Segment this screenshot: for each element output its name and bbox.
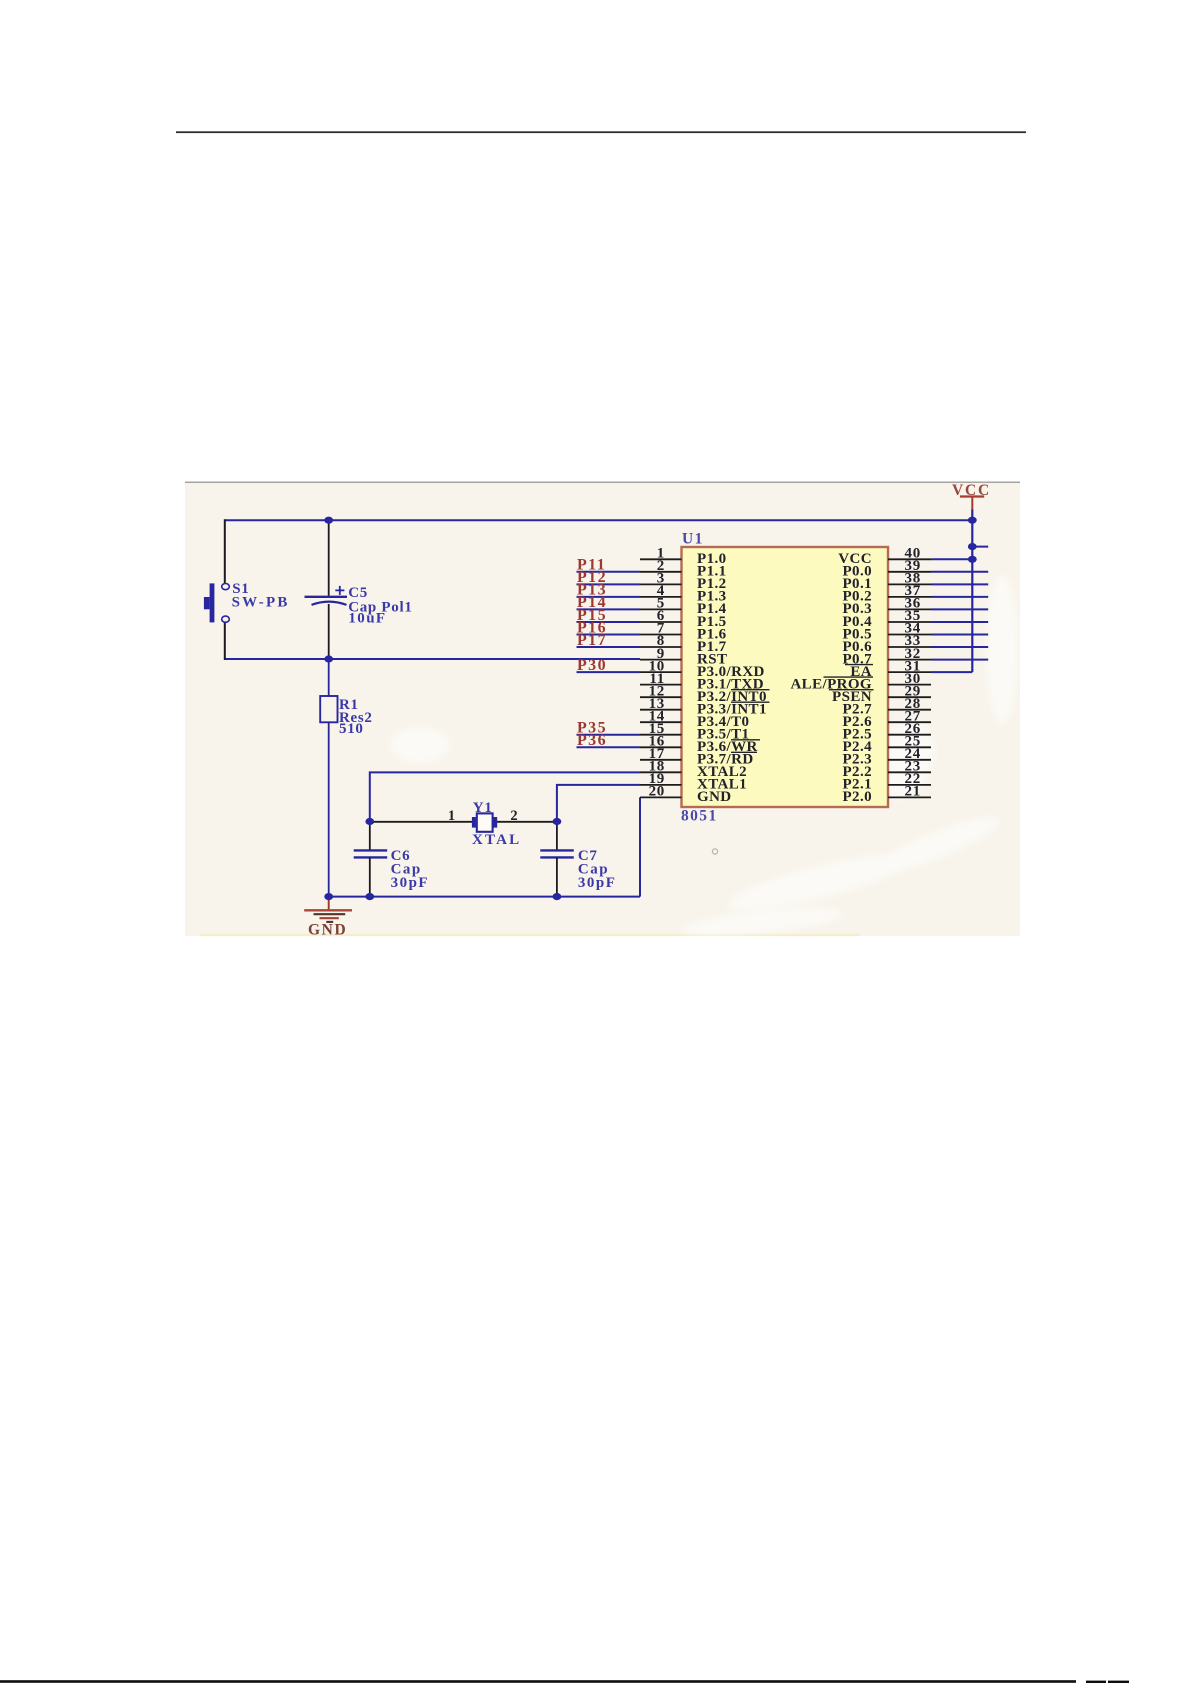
pin 25 (P2.4) right stub + number + name bbox=[842, 734, 931, 756]
pin 18 (XTAL2) left stub + number + name bbox=[640, 759, 747, 781]
pin 27 (P2.6) right stub + number + name bbox=[842, 708, 931, 730]
pin 2 (P1.1) left stub + number + name bbox=[640, 558, 727, 580]
pin 36 (P0.3) right stub + number + name bbox=[842, 596, 931, 618]
pin 17 (P3.7/RD) left stub + number + name bbox=[640, 746, 757, 768]
pin 34 (P0.5) right stub + number + name bbox=[842, 621, 931, 643]
pin 24 (P2.3) right stub + number + name bbox=[842, 746, 931, 768]
svg-text:XTAL: XTAL bbox=[472, 832, 521, 848]
wire: pin33 P0 bus bbox=[931, 646, 988, 648]
svg-text:20: 20 bbox=[649, 784, 665, 800]
wire: pin36 P0 bus bbox=[931, 608, 988, 610]
wire: pin32 P0 bus bbox=[931, 659, 988, 661]
wire: VCC vertical bus bbox=[971, 510, 973, 673]
wire: pin40 to VCC bus bbox=[931, 558, 972, 560]
pin 37 (P0.2) right stub + number + name bbox=[842, 583, 931, 605]
net label P16 wire bbox=[577, 619, 641, 636]
pin 1 (P1.0) left stub + number + name bbox=[640, 546, 727, 568]
svg-text:Y1: Y1 bbox=[473, 800, 493, 816]
pin 40 (VCC) right stub + number + name bbox=[838, 546, 931, 568]
svg-text:1: 1 bbox=[448, 808, 455, 824]
pin 19 (XTAL1) left stub + number + name bbox=[640, 771, 747, 793]
wire: pin31 EA to VCC bus bbox=[931, 671, 972, 673]
pin 15 (P3.5/T1) left stub + number + name bbox=[640, 721, 749, 743]
pin 20 (GND) left stub + number + name bbox=[640, 784, 732, 806]
net label P30 wire bbox=[577, 657, 641, 674]
wire: VCC top rail bbox=[225, 519, 973, 521]
pin 35 (P0.4) right stub + number + name bbox=[842, 608, 931, 630]
resistor R1 Res2 510 bbox=[320, 659, 372, 897]
capacitor C5 Cap Pol1 10uF bbox=[305, 521, 413, 658]
net label P15 wire bbox=[577, 607, 641, 624]
net label P17 wire bbox=[577, 632, 641, 649]
junction dot (972,559) bbox=[968, 556, 977, 563]
junction dot (329,520) bbox=[324, 517, 333, 524]
wire: pin37 P0 bus bbox=[931, 596, 988, 598]
pin 33 (P0.6) right stub + number + name bbox=[842, 633, 931, 655]
pin 13 (P3.3/INT1) left stub + number + name bbox=[640, 696, 770, 718]
svg-text:P30: P30 bbox=[577, 657, 607, 674]
wire: pin35 P0 bus bbox=[931, 621, 988, 623]
net label P11 wire bbox=[577, 557, 641, 574]
net label P36 wire bbox=[577, 732, 641, 749]
bottom edge bar bbox=[0, 1680, 1129, 1683]
svg-text:P36: P36 bbox=[577, 732, 607, 749]
pin 4 (P1.3) left stub + number + name bbox=[640, 583, 727, 605]
pin 12 (P3.2/INT0) left stub + number + name bbox=[640, 683, 770, 705]
junction dot (972,547) bbox=[968, 543, 977, 550]
pin 3 (P1.2) left stub + number + name bbox=[640, 571, 727, 593]
svg-text:10uF: 10uF bbox=[348, 611, 386, 627]
junction dot (370,897) bbox=[365, 893, 374, 900]
pin 23 (P2.2) right stub + number + name bbox=[842, 759, 931, 781]
pin 28 (P2.7) right stub + number + name bbox=[842, 696, 931, 718]
svg-text:P2.0: P2.0 bbox=[842, 789, 872, 805]
schematic background panel bbox=[185, 482, 1020, 937]
wire: RST net rail bbox=[225, 658, 640, 660]
wire: pin34 P0 bus bbox=[931, 634, 988, 636]
pin 11 (P3.1/TXD) left stub + number + name bbox=[640, 671, 764, 693]
svg-text:30pF: 30pF bbox=[391, 875, 430, 891]
pin 30 (ALE/PROG) right stub + number + name bbox=[790, 671, 931, 693]
pin 38 (P0.1) right stub + number + name bbox=[842, 571, 931, 593]
svg-text:P17: P17 bbox=[577, 632, 607, 649]
junction dot (557,897) bbox=[553, 893, 562, 900]
wire: ground bottom rail bbox=[329, 896, 640, 898]
net label P35 wire bbox=[577, 720, 641, 737]
pin 14 (P3.4/T0) left stub + number + name bbox=[640, 708, 749, 730]
svg-text:30pF: 30pF bbox=[578, 875, 617, 891]
pin 22 (P2.1) right stub + number + name bbox=[842, 771, 931, 793]
junction dot (972,520) bbox=[968, 517, 977, 524]
pin 31 (EA) right stub + number + name bbox=[845, 658, 931, 680]
IC U1 8051 body bbox=[681, 531, 888, 825]
wire: pin39 P0 bus bbox=[931, 571, 988, 573]
junction dot (329,659) bbox=[324, 655, 333, 662]
net label P12 wire bbox=[577, 569, 641, 586]
wire: XTAL2 (pin18) to crystal left node bbox=[370, 772, 640, 820]
pin 39 (P0.0) right stub + number + name bbox=[842, 558, 931, 580]
junction dot (329,897) bbox=[324, 893, 333, 900]
pin 5 (P1.4) left stub + number + name bbox=[640, 596, 727, 618]
net label P14 wire bbox=[577, 594, 641, 611]
wire: EA stub bbox=[972, 546, 988, 548]
wire: pin38 P0 bus bbox=[931, 583, 988, 585]
capacitor C6 Cap 30pF bbox=[354, 820, 429, 897]
switch S1 SW-PB bbox=[204, 581, 290, 623]
svg-text:GND: GND bbox=[308, 922, 347, 939]
capacitor C7 Cap 30pF bbox=[540, 820, 616, 897]
net label P13 wire bbox=[577, 582, 641, 599]
pin 26 (P2.5) right stub + number + name bbox=[842, 721, 931, 743]
pin 29 (PSEN) right stub + number + name bbox=[829, 683, 931, 705]
junction dot (370,822) bbox=[365, 818, 374, 825]
svg-text:SW-PB: SW-PB bbox=[232, 595, 290, 611]
svg-text:21: 21 bbox=[905, 784, 921, 800]
crystal Y1 XTAL bbox=[370, 800, 557, 848]
pin 8 (P1.7) left stub + number + name bbox=[640, 633, 727, 655]
pin 6 (P1.5) left stub + number + name bbox=[640, 608, 727, 630]
svg-text:U1: U1 bbox=[682, 531, 704, 548]
pin 21 (P2.0) right stub + number + name bbox=[842, 784, 931, 806]
wire: GND pin20 down leg bbox=[639, 797, 641, 896]
svg-text:510: 510 bbox=[339, 721, 364, 737]
header rule bbox=[176, 131, 1026, 133]
ground GND symbol bbox=[304, 897, 352, 922]
pin 32 (P0.7) right stub + number + name bbox=[842, 646, 931, 668]
pin 10 (P3.0/RXD) left stub + number + name bbox=[640, 658, 765, 680]
svg-text:8051: 8051 bbox=[681, 808, 718, 825]
wire: XTAL1 (pin19) to crystal right node bbox=[557, 785, 640, 821]
wire: S1 left branch vertical bbox=[224, 519, 226, 660]
junction dot (557,822) bbox=[553, 818, 562, 825]
power symbol VCC bbox=[952, 482, 991, 509]
pin 16 (P3.6/WR) left stub + number + name bbox=[640, 734, 760, 756]
svg-text:GND: GND bbox=[697, 789, 732, 805]
pin 7 (P1.6) left stub + number + name bbox=[640, 621, 727, 643]
pin 9 (RST) left stub + number + name bbox=[640, 646, 727, 668]
svg-text:2: 2 bbox=[510, 808, 517, 824]
